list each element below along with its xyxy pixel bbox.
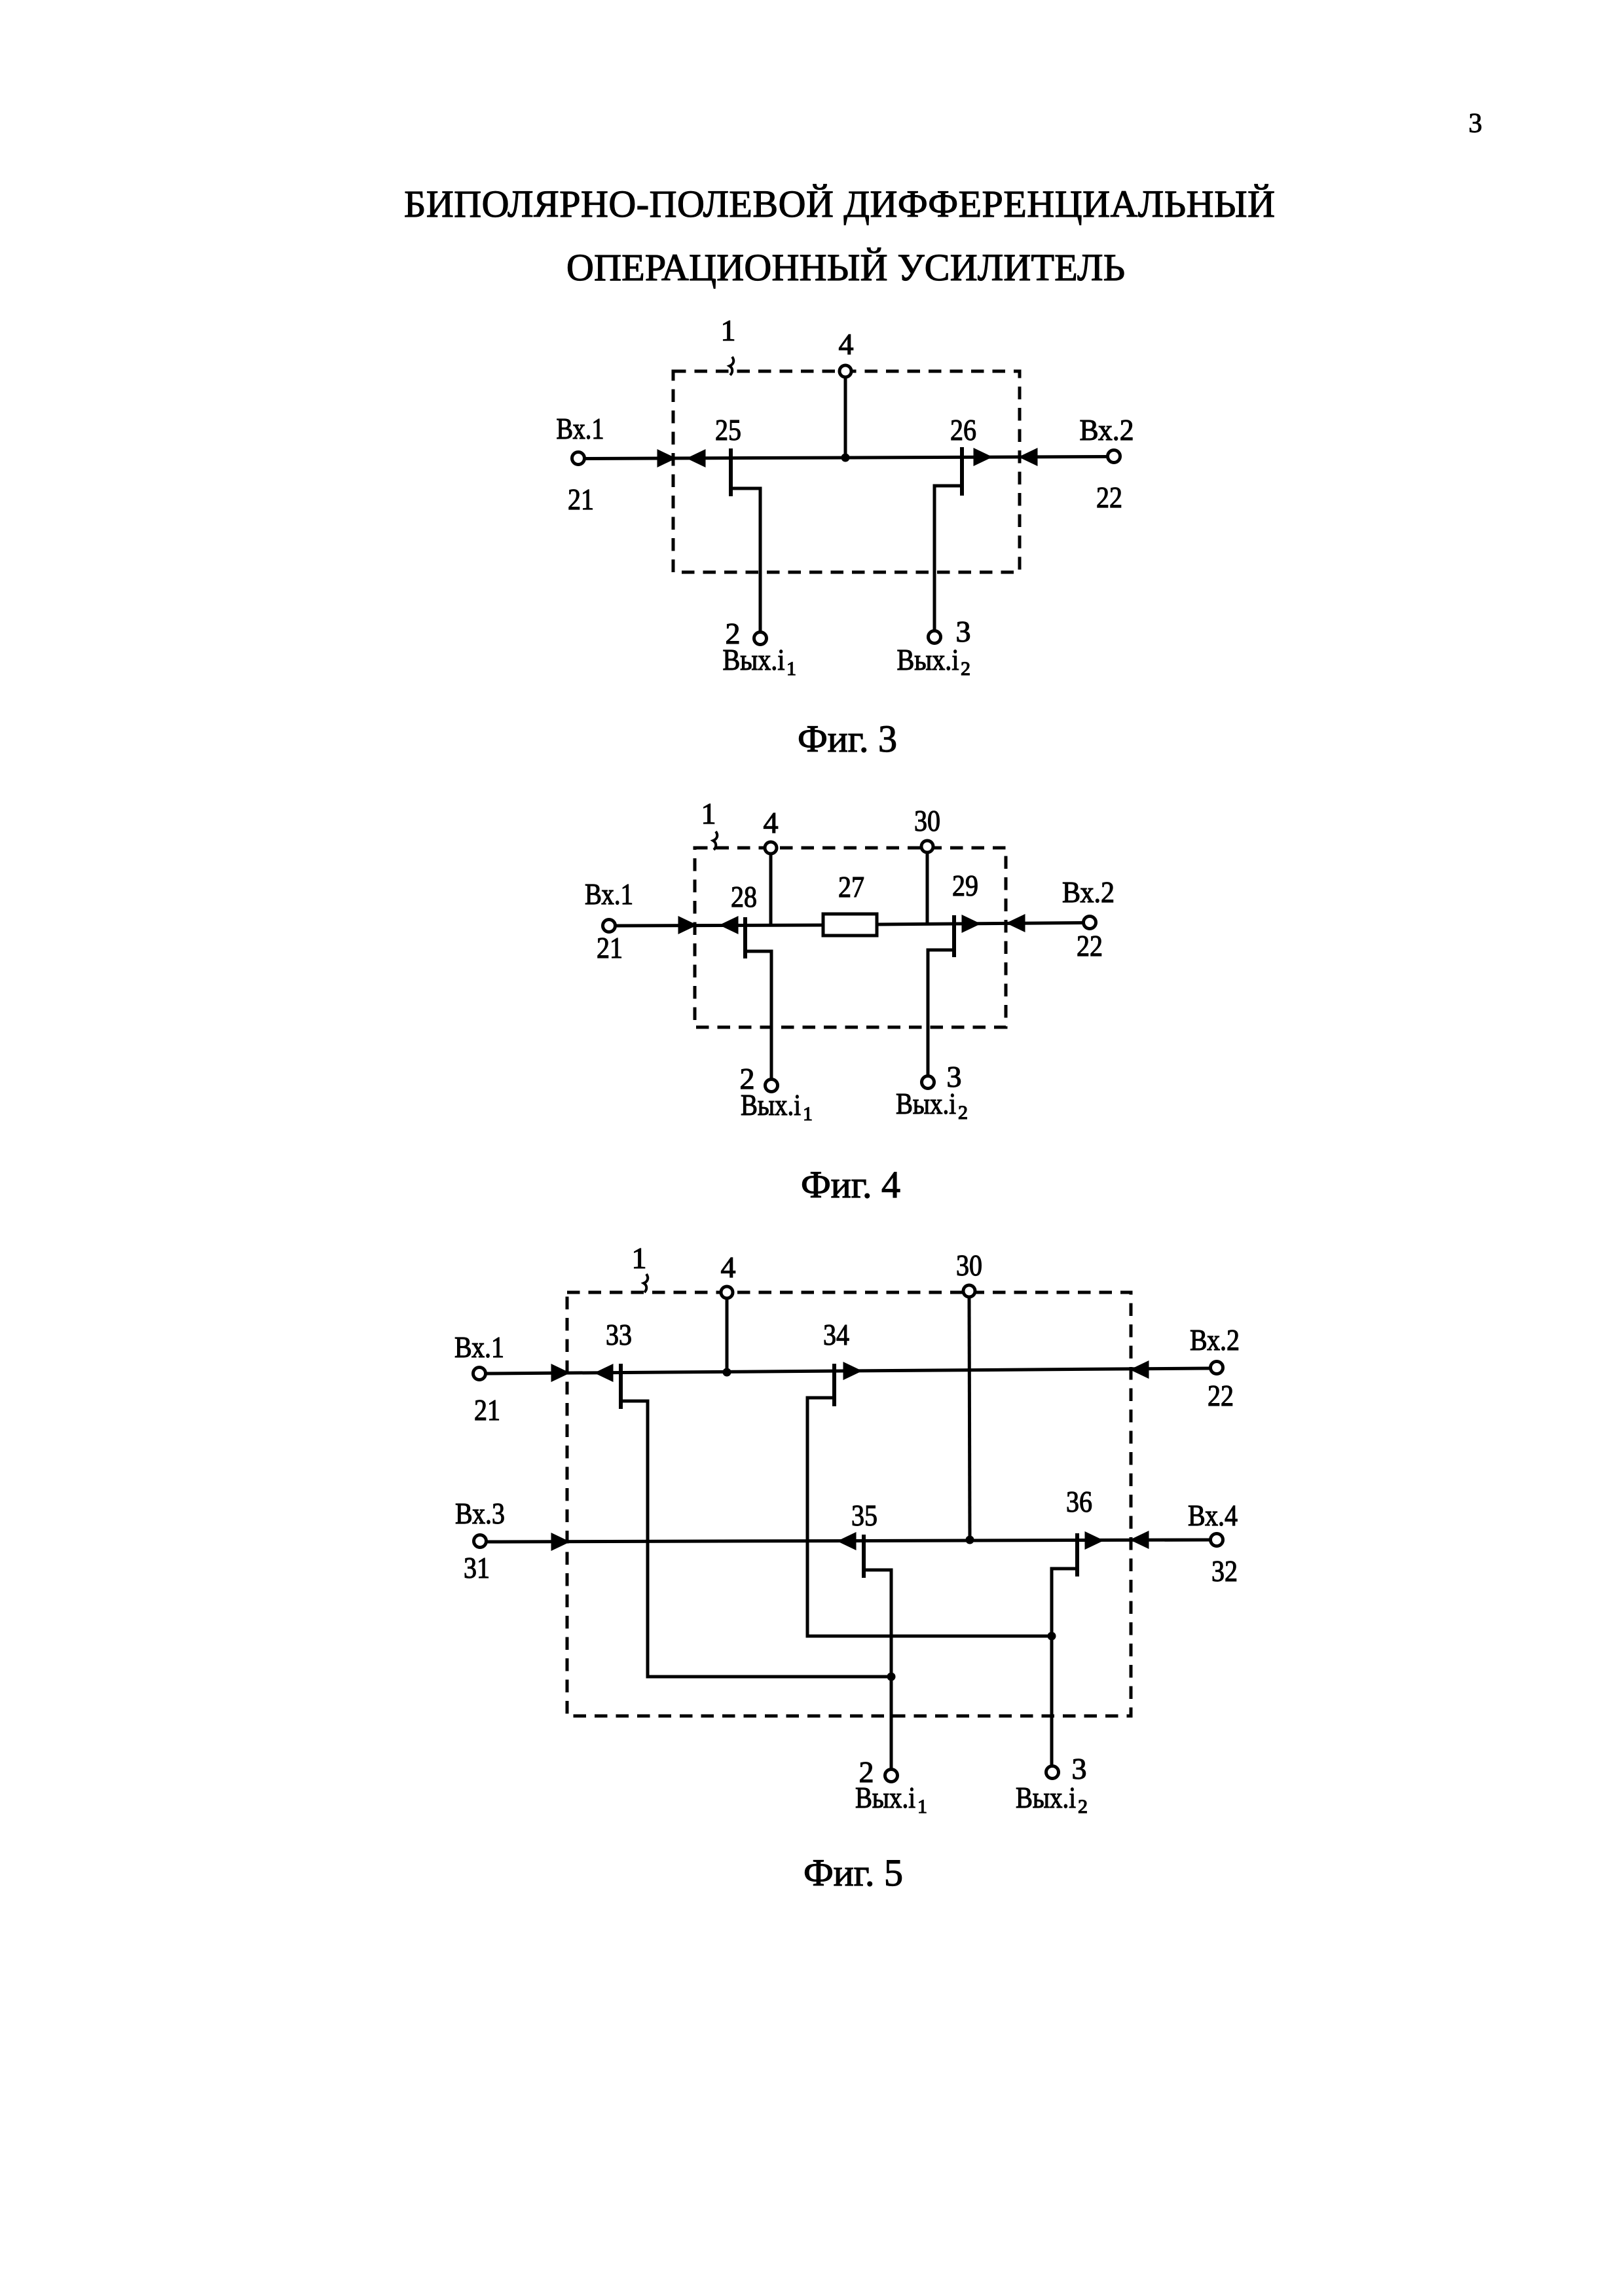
- svg-text:28: 28: [731, 880, 757, 913]
- node: junction on lower wire: [966, 1536, 974, 1544]
- svg-text:1: 1: [786, 658, 796, 680]
- svg-text:Вых.i: Вых.i: [1016, 1781, 1076, 1814]
- svg-text:26: 26: [950, 413, 976, 446]
- unit box 1 (dashed): [695, 848, 1006, 1027]
- wire from terminal 4: [726, 1298, 729, 1372]
- svg-text:31: 31: [464, 1551, 490, 1584]
- terminal 30: [963, 1285, 975, 1297]
- arrow into box from Вх.4: [1134, 1533, 1147, 1546]
- svg-text:35: 35: [851, 1499, 877, 1532]
- svg-text:1: 1: [632, 1241, 647, 1275]
- svg-text:21: 21: [474, 1393, 500, 1427]
- wire: main horizontal left of resistor: [616, 925, 823, 926]
- transistor 25 base bar: [729, 448, 733, 496]
- svg-text:32: 32: [1211, 1554, 1238, 1588]
- svg-text:30: 30: [956, 1248, 982, 1282]
- input terminal 31: [474, 1535, 487, 1548]
- wire: lower horizontal: [487, 1540, 1209, 1542]
- arrow into box from Вх.2: [1010, 917, 1024, 930]
- transistor 36 collector lead: [1052, 1569, 1077, 1765]
- wire: main horizontal right of resistor: [877, 923, 1082, 925]
- svg-text:4: 4: [721, 1250, 736, 1284]
- svg-text:4: 4: [764, 806, 779, 839]
- svg-text:Вх.3: Вх.3: [455, 1497, 505, 1530]
- svg-text:Вх.2: Вх.2: [1062, 875, 1115, 909]
- output terminal 2: [885, 1770, 898, 1782]
- emitter arrow of transistor 36: [1086, 1534, 1100, 1547]
- svg-text:Вых.i: Вых.i: [723, 643, 785, 676]
- svg-text:Вых.i: Вых.i: [741, 1088, 801, 1121]
- emitter arrow of transistor 35: [841, 1535, 855, 1548]
- transistor 33 collector lead: [621, 1401, 891, 1677]
- emitter arrow of transistor 26: [975, 450, 989, 464]
- transistor 34 base bar: [832, 1364, 836, 1406]
- input terminal 21: [603, 920, 616, 932]
- transistor 28 collector lead: [745, 951, 771, 1078]
- svg-text:21: 21: [568, 483, 594, 516]
- emitter arrow of transistor 34: [845, 1364, 858, 1377]
- leader squiggle for label 1: [644, 1274, 648, 1292]
- svg-text:1: 1: [803, 1103, 813, 1125]
- transistor 28 base bar: [743, 917, 747, 958]
- arrow into box from Вх.1: [553, 1366, 566, 1379]
- arrow into box from Вх.1: [680, 919, 693, 932]
- terminal 30: [921, 841, 933, 852]
- svg-text:Вх.1: Вх.1: [557, 412, 604, 445]
- node: junction of 34 and 36 leads: [1048, 1632, 1056, 1641]
- arrow into box from Вх.3: [553, 1535, 566, 1548]
- svg-text:25: 25: [715, 413, 741, 446]
- input terminal 21: [473, 1368, 486, 1380]
- svg-text:Вых.i: Вых.i: [896, 1087, 956, 1120]
- output terminal 3: [922, 1076, 934, 1089]
- svg-text:1: 1: [721, 314, 736, 347]
- terminal 4: [840, 365, 851, 377]
- input terminal 21: [572, 452, 585, 465]
- node: junction of 33 and 35 leads: [887, 1673, 896, 1681]
- transistor 26 base bar: [960, 447, 964, 496]
- svg-text:Вх.2: Вх.2: [1080, 413, 1134, 446]
- emitter arrow of transistor 25: [690, 452, 704, 465]
- svg-text:Вых.i: Вых.i: [897, 643, 959, 676]
- transistor 35 base bar: [862, 1535, 866, 1578]
- svg-text:Фиг. 4: Фиг. 4: [801, 1163, 900, 1206]
- svg-text:29: 29: [952, 869, 978, 902]
- svg-text:33: 33: [606, 1318, 632, 1351]
- wire from terminal 4: [769, 854, 773, 924]
- arrow into box from Вх.1: [659, 452, 673, 465]
- arrow into box from Вх.2: [1022, 450, 1036, 464]
- svg-text:4: 4: [839, 327, 854, 361]
- svg-text:36: 36: [1066, 1485, 1092, 1518]
- leader squiggle for label 1: [729, 357, 733, 375]
- svg-text:Фиг. 3: Фиг. 3: [798, 718, 897, 760]
- output terminal 3: [929, 631, 941, 644]
- input terminal 22: [1108, 450, 1120, 463]
- wire from terminal 30 down to lower wire: [969, 1297, 970, 1540]
- wire from terminal 4 to node: [844, 377, 847, 458]
- svg-text:2: 2: [961, 658, 970, 680]
- resistor 27: [823, 914, 877, 936]
- transistor 34 collector lead: [807, 1398, 1052, 1636]
- emitter arrow of transistor 33: [598, 1366, 612, 1379]
- svg-text:22: 22: [1077, 929, 1103, 962]
- output terminal 2: [766, 1080, 778, 1092]
- svg-text:Вх.1: Вх.1: [585, 877, 633, 911]
- svg-text:22: 22: [1208, 1379, 1234, 1412]
- svg-text:ОПЕРАЦИОННЫЙ УСИЛИТЕЛЬ: ОПЕРАЦИОННЫЙ УСИЛИТЕЛЬ: [566, 246, 1125, 289]
- svg-text:30: 30: [914, 804, 940, 837]
- svg-text:27: 27: [838, 870, 864, 903]
- svg-text:Вх.1: Вх.1: [454, 1330, 504, 1364]
- terminal 4: [721, 1286, 733, 1298]
- svg-text:21: 21: [597, 931, 623, 964]
- svg-text:2: 2: [1078, 1796, 1088, 1817]
- wire: upper horizontal: [487, 1368, 1209, 1374]
- terminal 4: [765, 842, 777, 854]
- transistor 33 base bar: [619, 1364, 623, 1409]
- svg-text:Вых.i: Вых.i: [855, 1781, 915, 1814]
- svg-text:1: 1: [917, 1796, 927, 1817]
- transistor 25 collector lead: [731, 488, 760, 631]
- svg-text:БИПОЛЯРНО-ПОЛЕВОЙ ДИФФЕРЕНЦИАЛ: БИПОЛЯРНО-ПОЛЕВОЙ ДИФФЕРЕНЦИАЛЬНЫЙ: [404, 183, 1275, 225]
- unit box 1 (dashed): [673, 371, 1020, 572]
- emitter arrow of transistor 28: [723, 919, 737, 932]
- input terminal 22: [1084, 917, 1096, 929]
- arrow into box from Вх.2: [1134, 1363, 1147, 1376]
- output terminal 2: [754, 632, 767, 645]
- svg-text:34: 34: [823, 1318, 849, 1351]
- output terminal 3: [1046, 1766, 1059, 1779]
- svg-text:Фиг. 5: Фиг. 5: [803, 1851, 903, 1894]
- input terminal 22: [1211, 1362, 1223, 1374]
- transistor 29 collector lead: [928, 950, 954, 1075]
- node: junction on upper wire: [723, 1368, 731, 1377]
- wire: main horizontal: [585, 457, 1107, 459]
- svg-text:1: 1: [701, 797, 716, 830]
- input terminal 32: [1211, 1534, 1223, 1546]
- unit box 1 (dashed): [567, 1292, 1131, 1716]
- emitter arrow of transistor 29: [963, 917, 977, 930]
- leader squiggle for label 1: [713, 831, 717, 850]
- transistor 29 base bar: [952, 915, 956, 957]
- wire from terminal 30: [926, 852, 929, 924]
- svg-text:22: 22: [1096, 481, 1122, 514]
- svg-text:2: 2: [958, 1102, 968, 1123]
- node: junction dot: [841, 454, 850, 462]
- transistor 26 collector lead: [934, 486, 962, 630]
- svg-text:Вх.4: Вх.4: [1188, 1499, 1238, 1532]
- svg-text:Вх.2: Вх.2: [1190, 1323, 1240, 1357]
- transistor 35 collector lead: [864, 1570, 891, 1768]
- transistor 36 base bar: [1075, 1533, 1079, 1576]
- svg-text:3: 3: [1469, 109, 1483, 139]
